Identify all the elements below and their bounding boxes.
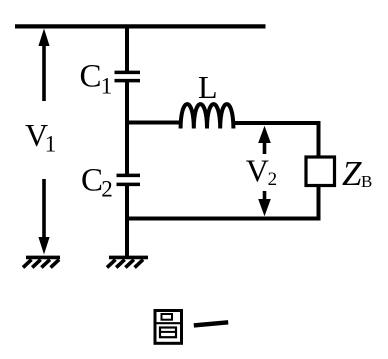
- svg-text:C: C: [80, 59, 102, 95]
- svg-text:2: 2: [268, 169, 278, 190]
- svg-text:1: 1: [45, 132, 57, 157]
- svg-text:1: 1: [101, 73, 113, 98]
- svg-text:Z: Z: [342, 154, 362, 193]
- svg-text:V: V: [246, 152, 269, 188]
- svg-text:2: 2: [101, 177, 113, 202]
- svg-text:C: C: [81, 163, 103, 199]
- svg-text:B: B: [361, 172, 372, 191]
- svg-text:L: L: [198, 69, 218, 105]
